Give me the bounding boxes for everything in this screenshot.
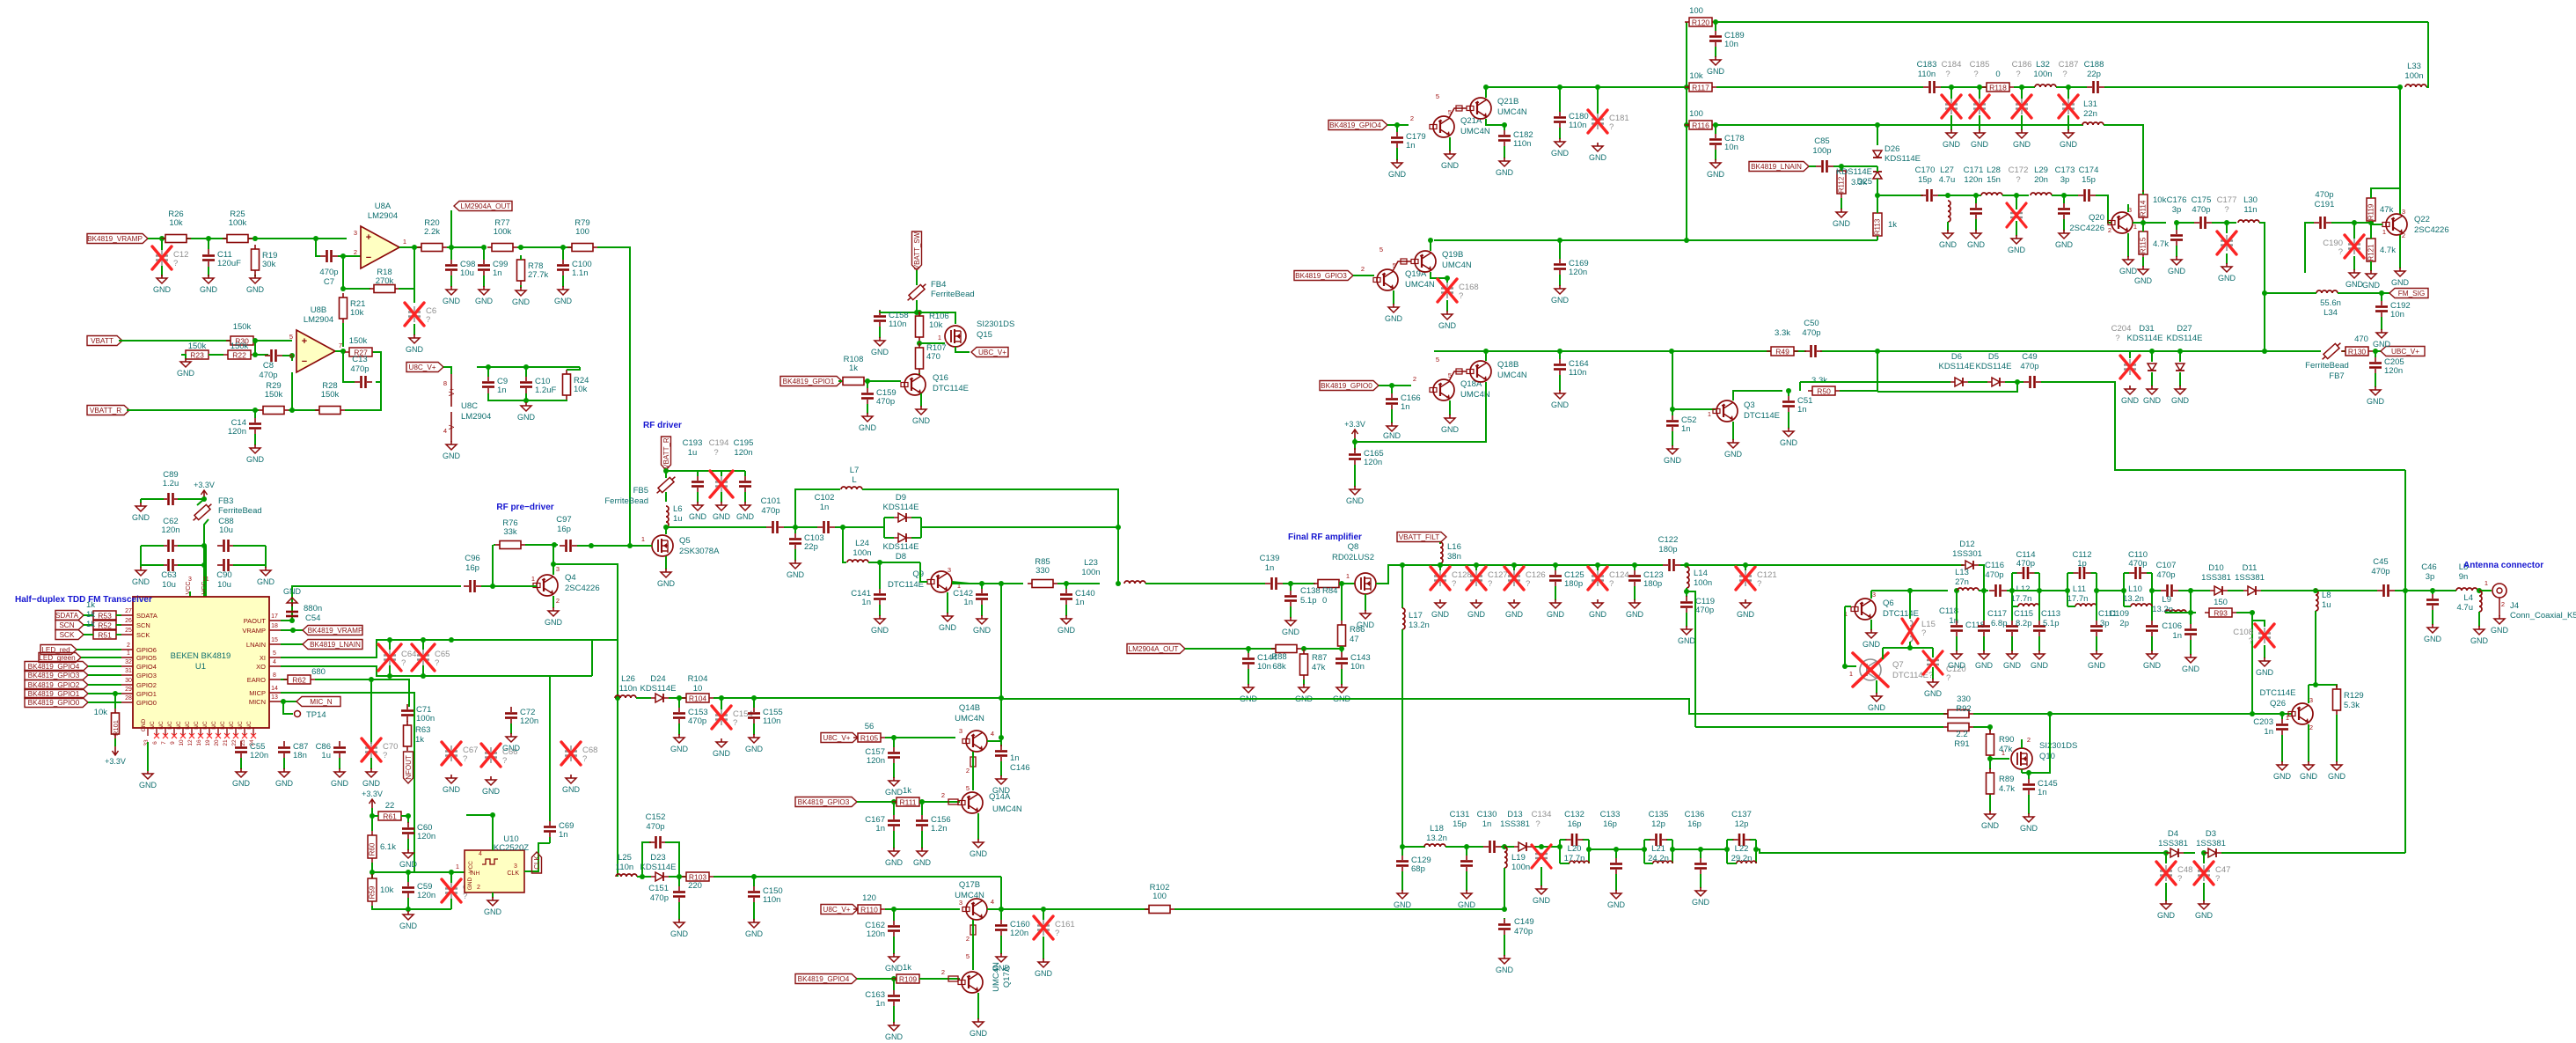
transistor Q9 <box>927 571 952 592</box>
junction <box>289 408 295 413</box>
svg-text:?: ? <box>1609 122 1614 132</box>
wire <box>466 815 493 850</box>
wire <box>2353 256 2355 270</box>
svg-text:100n: 100n <box>853 548 871 558</box>
svg-text:1SS381: 1SS381 <box>2235 573 2265 583</box>
node VBATT_R <box>662 437 671 470</box>
junction <box>449 245 454 250</box>
svg-text:1u: 1u <box>688 448 698 458</box>
wire <box>2104 125 2143 192</box>
wire <box>1695 726 1943 728</box>
wire <box>987 740 1001 742</box>
wire <box>2096 636 2097 651</box>
svg-text:1n: 1n <box>1010 753 1020 763</box>
junction <box>1041 907 1046 912</box>
wire <box>114 738 116 746</box>
wire <box>1434 350 1806 352</box>
svg-text:GND: GND <box>132 513 150 522</box>
svg-text:C106: C106 <box>2162 621 2182 631</box>
wire <box>2096 591 2097 621</box>
wire <box>678 698 680 708</box>
svg-text:120n: 120n <box>520 716 538 726</box>
svg-text:GND: GND <box>1724 450 1743 459</box>
capacitor C155 <box>748 707 783 726</box>
ground <box>1496 955 1514 974</box>
svg-text:10: 10 <box>693 684 703 694</box>
wire <box>857 978 896 980</box>
svg-text:?: ? <box>2224 205 2228 215</box>
diode D27 <box>2176 364 2184 371</box>
capacitor <box>2314 217 2331 229</box>
svg-text:1n: 1n <box>1401 402 1410 412</box>
wire <box>630 545 642 547</box>
wire <box>893 909 895 921</box>
svg-text:10k: 10k <box>929 320 943 330</box>
capacitor C54 <box>286 611 298 613</box>
wire <box>1559 840 1561 863</box>
svg-text:V−: V− <box>448 421 456 430</box>
svg-text:2SC4226: 2SC4226 <box>565 584 600 593</box>
svg-text:270k: 270k <box>376 276 394 286</box>
wire <box>1877 199 1878 213</box>
diode D26 <box>1873 151 1882 158</box>
wire <box>1065 584 1067 589</box>
svg-text:470p: 470p <box>876 397 895 407</box>
capacitor C99 <box>478 259 508 278</box>
power +3.3V <box>362 790 383 808</box>
wire <box>371 863 373 901</box>
wire <box>615 697 618 699</box>
wire <box>2097 590 2124 591</box>
wire <box>642 842 651 877</box>
svg-text:KDS114E: KDS114E <box>882 542 918 552</box>
junction <box>1670 847 1675 852</box>
svg-text:GND: GND <box>1496 168 1514 177</box>
node SCK <box>55 630 84 640</box>
svg-text:1: 1 <box>2133 223 2137 231</box>
svg-text:13.2n: 13.2n <box>1409 621 1430 630</box>
svg-text:GND: GND <box>1948 661 1966 670</box>
svg-text:L27: L27 <box>1940 165 1954 175</box>
wire <box>116 614 121 616</box>
wire <box>253 340 292 342</box>
wire <box>1303 679 1305 685</box>
svg-text:C8: C8 <box>263 361 274 371</box>
resistor R78 <box>517 255 549 285</box>
svg-text:100n: 100n <box>1081 568 1100 577</box>
wire <box>2091 572 2097 574</box>
junction <box>877 560 882 565</box>
svg-text:10k: 10k <box>380 885 394 895</box>
junction <box>1945 193 1950 198</box>
wire <box>189 591 191 597</box>
svg-text:GND: GND <box>2345 280 2364 289</box>
inductor L30 <box>2238 220 2259 223</box>
capacitor <box>1566 834 1584 846</box>
svg-text:U1: U1 <box>195 662 206 672</box>
wire <box>2191 591 2196 613</box>
wire <box>374 815 378 817</box>
ground <box>1678 626 1696 645</box>
svg-text:+3.3V: +3.3V <box>105 757 126 766</box>
svg-text:GND: GND <box>141 718 147 731</box>
svg-text:L20: L20 <box>1568 844 1582 854</box>
op-amp U8A <box>354 202 406 268</box>
inductor L31 <box>2082 122 2104 125</box>
wire <box>2067 573 2068 606</box>
svg-text:NC: NC <box>238 721 244 730</box>
svg-text:GND: GND <box>2470 636 2489 645</box>
wire <box>2014 86 2035 88</box>
pin SCN of U1 <box>121 624 133 626</box>
transistor Q10 <box>2011 748 2032 769</box>
svg-text:10u: 10u <box>219 525 233 535</box>
wire <box>893 1006 895 1023</box>
wire <box>2152 590 2161 591</box>
ferrite bead FB7 <box>2320 341 2342 362</box>
wire <box>2375 373 2376 387</box>
svg-text:BK4819_GPIO1: BK4819_GPIO1 <box>28 690 80 698</box>
svg-text:1: 1 <box>2382 228 2386 236</box>
junction <box>1339 646 1344 651</box>
wire <box>372 871 465 873</box>
ground <box>1862 629 1881 649</box>
wire <box>1401 629 1403 847</box>
transistor Q17B <box>962 899 987 920</box>
svg-text:R52: R52 <box>98 621 112 630</box>
ground <box>1607 890 1626 909</box>
wire <box>371 816 373 831</box>
junction <box>999 695 1004 701</box>
svg-text:4.7u: 4.7u <box>2457 603 2474 613</box>
svg-text:?: ? <box>1973 70 1978 79</box>
svg-text:R50: R50 <box>1817 387 1831 396</box>
svg-text:C96: C96 <box>465 554 479 563</box>
svg-text:C13: C13 <box>352 355 367 364</box>
ground <box>1333 684 1351 703</box>
svg-text:C130: C130 <box>1477 810 1497 819</box>
wire <box>2399 87 2401 209</box>
svg-text:4.7u: 4.7u <box>1939 175 1956 185</box>
svg-text:NC: NC <box>185 721 191 730</box>
wire <box>2203 883 2205 901</box>
svg-text:100k: 100k <box>494 227 512 237</box>
junction <box>370 870 375 875</box>
svg-text:L9: L9 <box>2162 595 2171 605</box>
wire <box>1990 758 2009 760</box>
svg-text:C116: C116 <box>1985 561 2004 570</box>
svg-text:GND: GND <box>1939 240 1958 249</box>
wire <box>345 382 381 410</box>
svg-text:C113: C113 <box>2041 609 2060 619</box>
wire <box>281 701 296 702</box>
ground <box>1282 617 1300 636</box>
wire <box>714 697 1001 699</box>
svg-text:10u: 10u <box>460 268 474 278</box>
svg-text:L26: L26 <box>621 674 635 684</box>
svg-text:LNAIN: LNAIN <box>246 641 266 649</box>
ground <box>246 275 265 294</box>
svg-text:47k: 47k <box>2380 205 2394 215</box>
svg-text:NC: NC <box>158 721 165 730</box>
capacitor C9 <box>482 376 508 395</box>
wire <box>1391 386 1393 393</box>
ground <box>2391 268 2410 287</box>
wire <box>488 393 567 400</box>
junction <box>891 907 896 912</box>
junction <box>891 976 896 981</box>
wire <box>1686 22 1687 240</box>
wire <box>413 324 415 335</box>
wire <box>1715 47 1716 57</box>
junction <box>370 813 375 819</box>
wire <box>2021 115 2023 130</box>
svg-text:BK4819_GPIO3: BK4819_GPIO3 <box>28 672 80 679</box>
svg-text:VBATT_SW: VBATT_SW <box>913 231 921 269</box>
svg-text:C175: C175 <box>2192 195 2212 205</box>
svg-text:15p: 15p <box>2082 175 2096 185</box>
svg-text:1.2n: 1.2n <box>931 824 948 834</box>
svg-text:NC: NC <box>246 721 252 730</box>
wire <box>577 545 630 547</box>
wire <box>1634 586 1636 600</box>
svg-text:2: 2 <box>1410 114 1414 122</box>
svg-text:13.2n: 13.2n <box>1426 834 1447 843</box>
wire <box>2381 293 2382 301</box>
svg-text:C139: C139 <box>1260 554 1280 563</box>
ground <box>1547 599 1565 619</box>
wire <box>1941 86 1988 88</box>
svg-text:10u: 10u <box>217 580 231 590</box>
pin VRAMP of U1 <box>269 629 281 631</box>
svg-text:470p: 470p <box>2016 559 2035 569</box>
wire <box>665 492 667 502</box>
svg-text:C191: C191 <box>2315 200 2335 209</box>
wire <box>204 519 209 597</box>
svg-text:C204: C204 <box>2111 324 2132 334</box>
pin GPIO6 of U1 <box>121 649 133 650</box>
ground <box>2168 256 2186 275</box>
capacitor <box>445 259 457 276</box>
resistor R90 <box>1987 730 1994 760</box>
wire <box>1446 300 1448 312</box>
junction <box>917 341 922 346</box>
svg-text:Q4: Q4 <box>565 573 576 583</box>
svg-text:180p: 180p <box>1643 579 1662 589</box>
resistor R28 <box>315 381 345 415</box>
resistor R52 <box>89 621 121 630</box>
svg-text:110n: 110n <box>763 895 780 905</box>
pin LNAIN of U1 <box>269 643 281 645</box>
node BK4819_GPIO0 <box>1320 381 1379 391</box>
svg-text:10k: 10k <box>1689 71 1703 81</box>
junction <box>1743 562 1748 568</box>
wire <box>553 596 554 608</box>
wire <box>1841 166 1842 171</box>
junction <box>2313 588 2318 593</box>
svg-text:FerriteBead: FerriteBead <box>2305 361 2349 371</box>
ground <box>443 286 461 305</box>
wire <box>1871 590 1910 591</box>
svg-text:KDS114E: KDS114E <box>1975 362 2011 371</box>
svg-text:C194: C194 <box>709 438 729 448</box>
svg-text:68k: 68k <box>1272 662 1286 672</box>
junction <box>1713 122 1718 128</box>
wire <box>343 351 355 382</box>
svg-text:R109: R109 <box>899 975 918 984</box>
svg-text:C137: C137 <box>1731 810 1752 819</box>
wire <box>1877 179 1878 199</box>
wire <box>1396 125 1398 132</box>
wire <box>88 684 121 686</box>
svg-text:INH: INH <box>470 870 480 877</box>
svg-text:C115: C115 <box>2014 609 2033 619</box>
svg-text:GPIO0: GPIO0 <box>136 699 157 707</box>
junction <box>1464 844 1469 849</box>
svg-text:1: 1 <box>456 863 459 870</box>
node VBATT_SW <box>912 231 922 270</box>
resistor <box>404 721 412 751</box>
ground <box>1975 650 1994 670</box>
wire <box>2353 223 2355 239</box>
svg-text:120n: 120n <box>1569 268 1587 277</box>
wire <box>1672 408 1716 410</box>
capacitor <box>1921 189 1938 202</box>
svg-text:1n: 1n <box>2264 727 2273 737</box>
svg-text:110n: 110n <box>889 320 906 329</box>
resistor <box>916 343 924 373</box>
link Q21A-Q21B <box>1449 108 1467 118</box>
capacitor C163 <box>865 989 900 1009</box>
resistor R62 <box>283 675 315 685</box>
svg-text:?: ? <box>173 259 178 268</box>
wire <box>1909 642 1911 648</box>
ground <box>2470 626 2489 645</box>
resistor R25 <box>223 209 252 243</box>
wire <box>893 738 895 747</box>
wire <box>1877 125 1878 145</box>
resistor R119 <box>2367 194 2375 225</box>
wire <box>2096 573 2097 606</box>
junction <box>1977 84 1982 90</box>
wire <box>1504 124 1505 126</box>
svg-text:BK4819_GPIO1: BK4819_GPIO1 <box>783 378 835 386</box>
wire <box>2021 739 2023 748</box>
svg-text:C195: C195 <box>734 438 754 448</box>
svg-text:R114: R114 <box>2140 200 2148 217</box>
svg-text:GND: GND <box>885 964 904 973</box>
svg-text:L29: L29 <box>2034 165 2048 175</box>
svg-text:UMC4N: UMC4N <box>955 891 984 900</box>
svg-text:GND: GND <box>443 297 461 305</box>
svg-text:1SS381: 1SS381 <box>2196 839 2226 848</box>
wire <box>636 697 651 699</box>
node VBATT <box>87 336 122 346</box>
junction <box>2019 84 2024 90</box>
wire <box>2012 590 2039 591</box>
capacitor C10 <box>520 376 556 395</box>
wire <box>2142 257 2144 267</box>
wire <box>1745 564 1964 566</box>
ground <box>362 768 381 788</box>
ground <box>1948 650 1966 670</box>
wire <box>233 545 266 547</box>
capacitor <box>2006 620 2018 637</box>
wire <box>140 546 142 568</box>
svg-text:4: 4 <box>479 851 482 857</box>
junction <box>523 364 529 370</box>
svg-text:R89: R89 <box>1999 775 2014 784</box>
wire <box>1504 125 1505 130</box>
svg-text:−: − <box>366 253 371 263</box>
junction <box>289 618 295 623</box>
svg-text:?: ? <box>1946 673 1950 683</box>
svg-text:BEKEN BK4819: BEKEN BK4819 <box>171 651 231 661</box>
wire <box>921 526 1118 528</box>
svg-text:GND: GND <box>362 779 381 788</box>
wire <box>1504 146 1505 158</box>
svg-text:C174: C174 <box>2079 165 2099 175</box>
svg-text:6: 6 <box>289 352 293 360</box>
svg-text:17.7n: 17.7n <box>2067 594 2089 604</box>
junction <box>1064 581 1069 586</box>
capacitor <box>2074 567 2091 579</box>
wire <box>1145 583 1265 584</box>
svg-text:UBC_V+: UBC_V+ <box>2391 348 2419 356</box>
ground <box>1868 693 1886 712</box>
svg-text:GND: GND <box>670 929 689 938</box>
junction <box>1987 756 1993 761</box>
svg-text:KDS114E: KDS114E <box>882 503 918 512</box>
wire <box>2373 350 2381 352</box>
svg-text:120n: 120n <box>161 525 179 535</box>
wire <box>141 545 164 547</box>
wire <box>2252 621 2265 627</box>
wire <box>879 605 881 616</box>
wire <box>291 372 293 410</box>
capacitor <box>2023 376 2041 388</box>
node U8C_V+ <box>406 363 443 372</box>
ground <box>1939 230 1958 249</box>
svg-text:150k: 150k <box>321 390 340 400</box>
svg-text:?: ? <box>2016 70 2020 79</box>
wire <box>977 993 979 1019</box>
ground <box>1441 151 1460 170</box>
capacitor <box>1923 81 1941 93</box>
wire <box>1401 847 1403 856</box>
capacitor C88 <box>217 517 235 552</box>
capacitor <box>766 521 784 533</box>
ground <box>200 275 218 294</box>
svg-text:GND: GND <box>1551 296 1570 305</box>
svg-text:100n: 100n <box>416 714 435 723</box>
resistor R29 <box>259 381 289 415</box>
inductor L19 <box>1504 847 1507 868</box>
junction <box>1724 847 1730 852</box>
svg-text:C133: C133 <box>1600 810 1621 819</box>
svg-text:120n: 120n <box>867 756 885 766</box>
resistor R30 <box>226 322 258 346</box>
capacitor <box>265 349 282 362</box>
svg-text:C176: C176 <box>2167 195 2187 205</box>
junction <box>2061 193 2067 198</box>
junction <box>2224 220 2229 225</box>
svg-text:KDS114E: KDS114E <box>2166 334 2202 343</box>
wire <box>879 311 881 312</box>
svg-text:GND: GND <box>1975 661 1994 670</box>
wire <box>407 872 409 882</box>
inductor <box>2075 604 2097 606</box>
